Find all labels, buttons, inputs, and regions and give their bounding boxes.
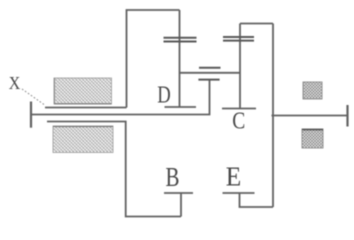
clutch upper plate xyxy=(199,67,221,69)
bearing block upper right (hatched) xyxy=(303,82,322,99)
brake B stem xyxy=(180,193,182,217)
plate C (bottom of C member) xyxy=(222,108,256,110)
housing upper line (left unit) xyxy=(45,107,127,109)
shaft C: vertical member xyxy=(239,24,241,109)
input shaft end plate X xyxy=(30,102,32,128)
shaft D: vertical member with clutch D xyxy=(179,10,181,107)
svg-text:E: E xyxy=(226,161,242,191)
stator block upper (hatched) xyxy=(54,78,112,104)
housing lower line + left frame down to bottom xyxy=(47,122,181,217)
clutch lower plate (on input shaft riser) xyxy=(198,79,219,81)
brake E stem and bottom link xyxy=(240,193,274,207)
gear pair D (double dash on D member) xyxy=(164,37,197,39)
input shaft (main) with riser to clutch plate xyxy=(31,80,210,115)
output shaft end plate xyxy=(346,105,348,127)
stator block lower (hatched) xyxy=(53,126,113,153)
svg-text:B: B xyxy=(166,162,180,192)
brake E plate xyxy=(223,192,255,194)
frame top-left: top line of left gear frame xyxy=(127,10,180,108)
brake B plate xyxy=(164,192,193,194)
svg-text:X: X xyxy=(9,73,21,93)
leader line from X xyxy=(22,89,44,105)
output shaft xyxy=(272,115,348,117)
link line between D and C members xyxy=(180,72,241,74)
svg-text:D: D xyxy=(157,82,171,109)
svg-text:C: C xyxy=(232,108,245,135)
bearing block lower right (hatched) xyxy=(302,129,323,148)
gear pair C (double dash on C member) xyxy=(223,36,254,38)
frame top-right xyxy=(240,23,273,25)
right frame vertical xyxy=(272,24,274,208)
plate D (bottom of D member) xyxy=(165,106,197,108)
